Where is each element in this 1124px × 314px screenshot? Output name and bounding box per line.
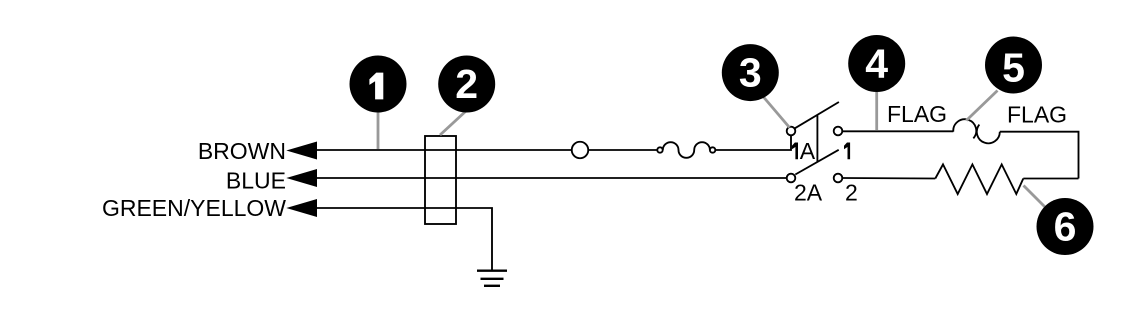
arrow BROWN <box>286 142 317 160</box>
svg-text:2A: 2A <box>794 180 823 206</box>
wire BROWN right segment to contact 1A <box>715 135 791 150</box>
wire from contact 2 to resistor <box>842 177 935 180</box>
svg-text:BLUE: BLUE <box>226 168 286 194</box>
svg-text:FLAG: FLAG <box>1007 102 1067 128</box>
switch blade pole 2 <box>795 150 838 175</box>
svg-text:GREEN/YELLOW: GREEN/YELLOW <box>102 195 286 221</box>
wire BLUE segment <box>310 177 787 179</box>
callout 3 <box>722 44 779 101</box>
ground symbol <box>477 271 507 286</box>
svg-text:2: 2 <box>845 180 858 206</box>
switch contact circle 2A <box>787 174 796 183</box>
svg-text:2: 2 <box>455 61 478 107</box>
svg-text:BROWN: BROWN <box>198 138 286 164</box>
callout 4 <box>848 35 905 92</box>
pin label 1 <box>844 143 850 160</box>
switch mechanical link <box>816 116 818 163</box>
leader line to callout 3 <box>764 97 790 128</box>
svg-text:3: 3 <box>739 49 762 95</box>
switch contact circle 1A <box>787 127 796 136</box>
thermal cutout TCO (item 5) <box>953 119 1000 143</box>
leader line to callout 4 <box>875 92 878 130</box>
switch contact circle 2 <box>834 174 843 183</box>
wire heater loop top and right edge <box>1000 132 1079 179</box>
pin label 1A <box>792 138 816 164</box>
leader line to callout 5 <box>966 91 997 121</box>
wire heater loop bottom <box>1023 178 1078 180</box>
wire GREEN/YELLOW segment to ground <box>310 208 492 271</box>
svg-text:4: 4 <box>865 40 888 86</box>
arrow BLUE <box>286 169 317 187</box>
arrow GREEN/YELLOW <box>286 199 317 217</box>
leader line to callout 6 <box>1024 186 1046 208</box>
leader line to callout 1 <box>377 112 380 149</box>
svg-text:6: 6 <box>1054 203 1077 249</box>
svg-text:A: A <box>800 138 816 164</box>
callout 6 <box>1037 198 1094 255</box>
callout 2 <box>438 56 495 113</box>
cable entry rectangle (item 2) <box>425 136 456 224</box>
callout 1 <box>350 56 407 113</box>
svg-text:5: 5 <box>1002 44 1025 90</box>
wire BROWN middle segment <box>588 149 657 151</box>
wire BROWN left segment <box>310 149 572 151</box>
switch blade pole 1 <box>794 102 839 129</box>
resistor heating element (item 6) <box>935 164 1023 194</box>
switch contact circle 1 <box>834 127 843 136</box>
node junction circle on brown wire <box>572 142 589 159</box>
wire from contact 1 to thermal cutout <box>842 130 953 132</box>
callout 5 <box>985 37 1042 94</box>
thermal protector F1 on brown wire <box>657 142 715 158</box>
svg-text:FLAG: FLAG <box>887 101 947 127</box>
leader line to callout 2 <box>440 111 466 135</box>
